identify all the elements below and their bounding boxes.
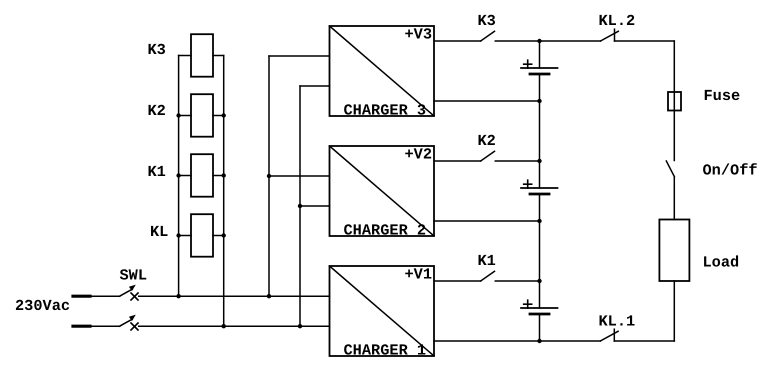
switch K1 lever [481,271,495,281]
svg-text:K3: K3 [148,41,166,59]
junction dot right rail on bottom bus [222,324,226,328]
svg-text:SWL: SWL [120,267,148,285]
junction dot feeder L on top bus [267,294,271,298]
charger U3 diagonal [330,26,435,116]
svg-text:CHARGER 3: CHARGER 3 [344,102,427,120]
junction dot battery1 - node [537,339,541,343]
switch SWL pole 2 arrowhead [129,315,136,321]
wire bottom AC bus y=326 [139,325,330,327]
wire top AC bus y=296 [139,295,330,297]
coil K3 stub right [213,55,224,57]
battery BT2 plus mark [524,180,532,188]
switch K3 lever [481,31,495,41]
switch KL.1 lever [600,331,618,341]
battery BT3 short plate [530,73,549,76]
wire charger3 input N [300,85,330,87]
junction dot right rail KL [222,233,226,237]
junction dot battery2 + node [537,159,541,163]
svg-text:KL: KL [150,223,168,241]
wire charger2 input L [269,175,330,177]
svg-text:K1: K1 [148,163,166,181]
junction dot left rail K1 [176,173,180,177]
switch SWL pole 1 lever [120,289,133,296]
wire K1 to battery 1 + [495,280,539,282]
svg-text:On/Off: On/Off [703,162,758,180]
svg-text:+V3: +V3 [405,26,433,44]
charger U2 box [330,146,435,236]
switch SWL pole 2 X mark [131,323,138,330]
junction dot battery2 - node [537,219,541,223]
junction dot left rail on top bus [176,294,180,298]
coil K1 stub right [213,175,224,177]
wire +V1 output [434,280,481,282]
wire K3 to battery 3 + [495,40,539,42]
svg-text:230Vac: 230Vac [15,297,70,315]
coil left rail [178,56,180,297]
wire charger2 minus output [434,220,540,222]
battery BT1 long plate [521,307,558,309]
charger U3 box [330,26,435,116]
coil K2 body [191,94,213,137]
wire battery2 - to battery1 + [539,194,541,308]
wire KL.2 to top right corner [615,40,675,42]
coil KL stub right [213,235,224,237]
terminal stub L (thick) [73,295,90,298]
wire +V2 output [434,160,481,162]
battery BT1 plus mark [524,300,532,308]
fuse F1 body [668,92,681,111]
junction dot battery3 - node [537,99,541,103]
feeder wire vertical N (x=300) [299,86,301,326]
svg-text:KL.2: KL.2 [599,12,636,30]
svg-text:+V1: +V1 [405,266,433,284]
svg-text:KL.1: KL.1 [599,313,636,331]
wire Load to bottom right corner [673,281,675,341]
junction dot left rail K2 [176,113,180,117]
wire charger3 minus output [434,100,540,102]
switch KL.2 lever [601,31,619,41]
charger U1 diagonal [330,266,435,356]
switch KL.2 fixed contact tick [614,29,616,41]
terminal stub N (thick) [73,325,90,328]
junction dot feeder N on bottom bus [298,324,302,328]
wire On/Off to Load [673,177,675,220]
svg-text:Load: Load [703,254,740,272]
battery BT2 short plate [530,193,549,196]
wire charger2 input N [300,205,330,207]
coil K1 stub left [179,175,191,177]
junction dot right rail K2 [222,113,226,117]
junction dot battery3 + node [537,39,541,43]
svg-text:+V2: +V2 [405,146,433,164]
coil right rail [223,56,225,327]
battery BT3 long plate [521,67,558,69]
junction dot feeder N charger2 tap [298,204,302,208]
charger U2 diagonal [330,146,435,236]
switch K2 lever [481,151,495,161]
wire charger1 minus output to KL.1 [434,340,600,342]
svg-text:K3: K3 [478,12,496,30]
coil K2 stub left [179,115,191,117]
junction dot battery1 + node [537,279,541,283]
wire battery3 - to battery2 + [539,74,541,188]
junction dot left rail KL [176,233,180,237]
wire bottom right corner to KL.1 [614,340,674,342]
svg-text:K2: K2 [478,132,496,150]
coil K3 body [191,34,213,76]
battery BT1 bottom lead [539,314,541,341]
coil K2 stub right [213,115,224,117]
battery BT3 top lead [539,41,541,68]
switch SWL pole 1 arrowhead [129,285,136,291]
switch SWL pole 2 lever [120,319,133,326]
wire K2 to battery 2 + [495,160,539,162]
wire right branch down through fuse [673,41,675,161]
wire L to SWL pole 1 [90,295,120,297]
coil KL stub left [179,235,191,237]
wire +V3 output [434,40,481,42]
wire battery3 + to KL.2 [540,40,601,42]
switch SWL pole 1 X mark [131,293,138,300]
wire charger3 input L [269,55,330,57]
junction dot feeder L charger2 tap [267,174,271,178]
svg-text:K2: K2 [148,102,166,120]
coil KL body [191,214,213,257]
wire N to SWL pole 2 [90,325,120,327]
battery BT1 short plate [530,313,549,316]
svg-text:CHARGER 1: CHARGER 1 [344,342,427,360]
charger U1 box [330,266,435,356]
svg-text:K1: K1 [478,252,496,270]
svg-text:CHARGER 2: CHARGER 2 [344,222,427,240]
junction dot right rail K1 [222,173,226,177]
feeder wire vertical L (x=269) [268,56,270,296]
coil K1 body [191,154,213,197]
battery BT2 long plate [521,187,558,189]
svg-text:Fuse: Fuse [704,87,741,105]
battery BT3 plus mark [524,60,532,68]
coil K3 stub left [179,55,191,57]
switch On/Off lever [666,161,674,177]
load RL1 body [659,220,689,282]
switch KL.1 fixed contact tick [613,329,615,341]
